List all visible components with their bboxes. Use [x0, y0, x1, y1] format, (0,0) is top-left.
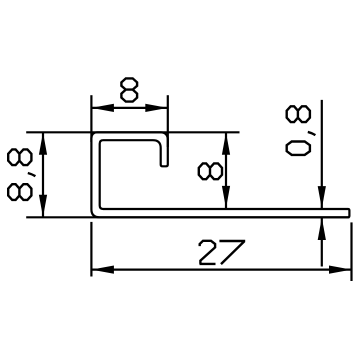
- label 8 middle dimension text (rotated): [199, 163, 222, 179]
- arrowhead 0,8 down: [318, 186, 326, 209]
- dimension line right 0,8 upper part: [321, 100, 323, 208]
- label 8 top dimension text: [121, 78, 137, 101]
- extension line right of bottom dimension 27: [350, 222, 352, 281]
- extension line right of top dimension 8: [167, 95, 169, 147]
- label 0,8 right dimension text (rotated): [287, 106, 316, 155]
- arrowhead 8,8 up: [39, 132, 47, 155]
- arrowhead middle 8 up: [222, 132, 230, 155]
- arrowhead 27 right: [329, 266, 352, 274]
- arrowhead 0,8 up: [318, 218, 326, 241]
- arrowhead top 8 right: [145, 104, 168, 112]
- dimension line middle 8: [225, 132, 227, 208]
- label 27 bottom dimension text: [200, 241, 216, 264]
- label 8,8 left dimension text (rotated): [8, 149, 35, 200]
- wire bottom surface line (extension for 8,8 / flange bottom): [26, 216, 349, 218]
- wire top surface line (extension for 8,8 and 8): [26, 131, 239, 133]
- arrowhead 27 left: [91, 266, 114, 274]
- profile outline: [91, 132, 349, 217]
- dimension line right 0,8 lower tail: [321, 218, 323, 267]
- extension line left of bottom dimension 27: [90, 222, 92, 277]
- arrowhead middle 8 down: [222, 186, 230, 209]
- extension line left of top dimension 8: [90, 95, 92, 142]
- arrowhead 8,8 down: [39, 195, 47, 218]
- dimension line left 8,8: [42, 132, 44, 217]
- dimension line top 8: [91, 107, 167, 109]
- arrowhead top 8 left: [91, 104, 114, 112]
- dimension line bottom 27: [91, 269, 351, 271]
